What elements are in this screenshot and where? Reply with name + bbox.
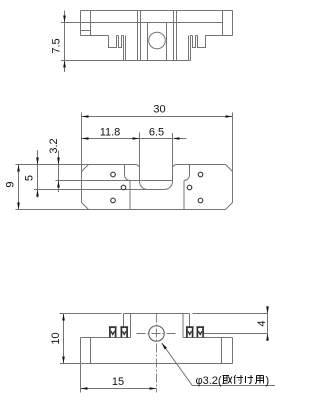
right edge [232, 11, 234, 36]
dim tail 6.5 [174, 138, 187, 140]
notch left fillet [140, 182, 148, 190]
top edge center block [124, 313, 190, 315]
arrow 30 left [82, 115, 89, 118]
kana ke [246, 375, 254, 384]
svg-text:9: 9 [5, 181, 17, 187]
arrow 3.2 top outside [57, 158, 60, 165]
svg-text:30: 30 [153, 104, 165, 116]
kanji you [255, 376, 264, 384]
step line 5 with left extension (notch floor) [34, 189, 165, 191]
top edge extension left segment [60, 313, 122, 315]
notch top chamfer left [137, 165, 140, 168]
arrow 4 top outside [266, 307, 269, 314]
S-step left upper vertical [124, 165, 126, 176]
chamfer bottom-left [82, 203, 89, 210]
step line 3.2 with left extension [56, 180, 173, 182]
snap tab front left 2 [120, 327, 128, 338]
bottom edge with left extension [60, 363, 233, 365]
hole C [111, 198, 116, 203]
wide tab left [109, 36, 117, 48]
bottom edge right section [206, 35, 233, 37]
leader line for mounting hole [162, 343, 275, 386]
arrow 5 top outside [36, 158, 39, 165]
arrow 7.5 bottom [63, 61, 66, 68]
centerline horizontal [137, 333, 177, 335]
top edge [81, 10, 233, 12]
step verticals left [123, 36, 125, 61]
arrow 6.5 right outside [173, 137, 180, 140]
small left step line [81, 30, 91, 32]
edge to step left [122, 35, 124, 37]
arrow 9 top inside [17, 165, 20, 172]
dimension 15 [81, 364, 157, 393]
dim line 11.8 [82, 138, 140, 140]
top edge right segment [175, 164, 226, 166]
center block outer right side [189, 314, 191, 327]
arrow 7.5 top [63, 16, 66, 23]
dimension 5 [37, 150, 39, 198]
S-step left fillet [125, 175, 131, 181]
svg-text:4: 4 [256, 320, 268, 326]
snap tab front right 1 [186, 327, 194, 338]
notch top chamfer right [173, 165, 176, 168]
kanji tori [223, 376, 233, 384]
kanji tsuke [234, 375, 243, 384]
dim line 9 [18, 165, 20, 210]
bottom edge left section [81, 35, 109, 37]
arrow 11.8 right [133, 137, 140, 140]
hole circle top view [149, 32, 166, 49]
hole D [198, 172, 203, 177]
dimension 6.5 [140, 138, 187, 140]
svg-text:10: 10 [50, 332, 62, 344]
left edge [80, 11, 82, 36]
narrow tab left [119, 36, 122, 48]
horizontal edge 7.5 level with left extension [61, 22, 223, 24]
center block inner right side [182, 314, 184, 338]
left column inner [90, 338, 92, 364]
arrow 10 bottom inside [62, 357, 65, 364]
svg-text:φ3.2(: φ3.2( [196, 375, 222, 387]
svg-text:3.2: 3.2 [48, 138, 60, 153]
arrow 10 top inside [62, 314, 65, 321]
center block outer left side [123, 314, 125, 327]
edge between tabs left [117, 35, 119, 37]
snap tab front right 2 [196, 327, 204, 338]
S-step right upper vertical [189, 165, 191, 176]
dim line 5 [37, 150, 39, 198]
svg-text:7.5: 7.5 [51, 38, 63, 53]
extension line 15 left [80, 364, 82, 393]
S-step left lower vertical [129, 181, 131, 210]
notch left wall with extension up [139, 133, 141, 182]
centerline vertical [156, 314, 158, 393]
arrow 11.8 left [82, 137, 89, 140]
dimension 10 [63, 314, 65, 364]
arrow 15 left inside [81, 387, 88, 390]
edge between tabs right [196, 35, 198, 37]
dim line 30 [82, 116, 233, 118]
step verticals right [188, 36, 190, 61]
hole E [187, 185, 192, 190]
base top edge right [183, 337, 233, 339]
mounting hole front view [149, 326, 165, 342]
S-step right fillet [184, 175, 190, 181]
dimension 11.8 [82, 138, 140, 140]
right column inner [221, 338, 223, 364]
chamfer bottom-right [226, 203, 233, 210]
narrow tab right [193, 36, 196, 48]
arrow 4 bottom outside [266, 334, 269, 341]
svg-text:11.8: 11.8 [100, 127, 121, 139]
dim line 4 [267, 306, 269, 341]
arrow 15 right inside [150, 387, 157, 390]
dimension 3.2 [58, 151, 60, 193]
right edge with extension up [232, 113, 234, 203]
chamfer top-left [82, 165, 89, 172]
dim line 10 [63, 314, 65, 364]
dimension 9 [18, 165, 20, 210]
wing bottom edge with right extension [204, 333, 268, 335]
center block inner left side [130, 314, 132, 338]
svg-text:): ) [266, 375, 270, 387]
hole F [198, 198, 203, 203]
center pair verticals right [173, 11, 175, 61]
left inner vertical [90, 11, 92, 36]
arrow 3.2 bottom outside [57, 181, 60, 188]
right column outer [232, 338, 234, 364]
hole B [121, 185, 126, 190]
dimension 30 [82, 116, 233, 118]
notch right wall with extension up [172, 133, 174, 182]
dim line 7.5 [64, 11, 66, 73]
dimension 7.5 [64, 11, 66, 73]
center inner vertical left [147, 23, 149, 61]
dim line 6.5 [140, 138, 173, 140]
snap tab front left 1 [109, 327, 117, 338]
top edge right extension segment [193, 313, 269, 315]
center pair verticals left [137, 11, 139, 61]
notch right fillet [165, 182, 173, 190]
svg-text:6.5: 6.5 [149, 127, 164, 139]
dimension 4 [267, 306, 269, 341]
center inner vertical right [166, 23, 168, 61]
dim line 15 [81, 388, 157, 390]
leader arrowhead [162, 343, 167, 350]
svg-text:5: 5 [24, 175, 36, 181]
left edge with extension up [81, 113, 83, 203]
svg-text:15: 15 [112, 376, 124, 388]
dim line 3.2 [58, 151, 60, 193]
arrow 9 bottom inside [17, 203, 20, 210]
arrow 5 bottom outside [36, 190, 39, 197]
edge step to narrow tab right [191, 35, 193, 37]
S-step right lower vertical [183, 181, 185, 210]
bottom edge with left extension [16, 209, 226, 211]
right inner vertical [222, 11, 224, 36]
bottom edge center with left extension [61, 60, 191, 62]
wide tab right [198, 36, 206, 48]
left column outer [80, 338, 82, 364]
arrow 30 right [226, 115, 233, 118]
base top edge left [81, 337, 131, 339]
chamfer top-right [226, 165, 233, 172]
top edge with left extension [16, 164, 138, 166]
hole A [111, 172, 116, 177]
